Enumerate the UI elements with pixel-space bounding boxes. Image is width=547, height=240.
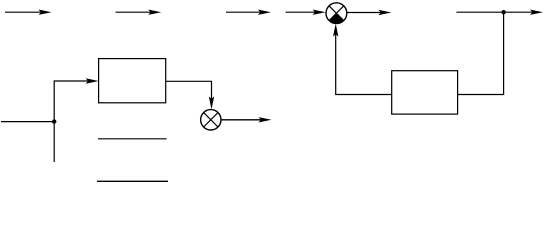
feedback wire left with arrow up into summing junction xyxy=(333,24,392,95)
output arrow xyxy=(530,10,543,15)
arrow top segment 3 xyxy=(226,10,271,15)
wire top right to node xyxy=(456,11,533,13)
block G (left box) xyxy=(99,59,166,103)
node dot (input branch) xyxy=(52,119,56,123)
arrow out of multiplier xyxy=(221,117,272,122)
block H (right box) xyxy=(392,71,458,114)
wire branch up and arrow into block G xyxy=(54,78,98,121)
input wire left xyxy=(1,121,54,123)
fraction bar 2 xyxy=(97,180,168,182)
node dot (takeoff point) xyxy=(501,10,505,14)
arrow out of summing junction U1 xyxy=(347,10,391,15)
arrow top input segment 1 xyxy=(5,10,52,15)
wire from block G right, down with arrow into multiplier xyxy=(166,81,215,109)
feedback wire right (node down, left to block) xyxy=(458,12,504,94)
fraction bar 1 xyxy=(98,138,167,140)
arrow top segment 2 xyxy=(116,10,162,15)
arrow into summing junction U1 xyxy=(286,10,326,15)
summing junction U1 (circle with X, filled lower sector) xyxy=(326,3,347,24)
wire branch down stub xyxy=(53,122,55,162)
multiplier U2 (circle with X) xyxy=(201,110,221,130)
